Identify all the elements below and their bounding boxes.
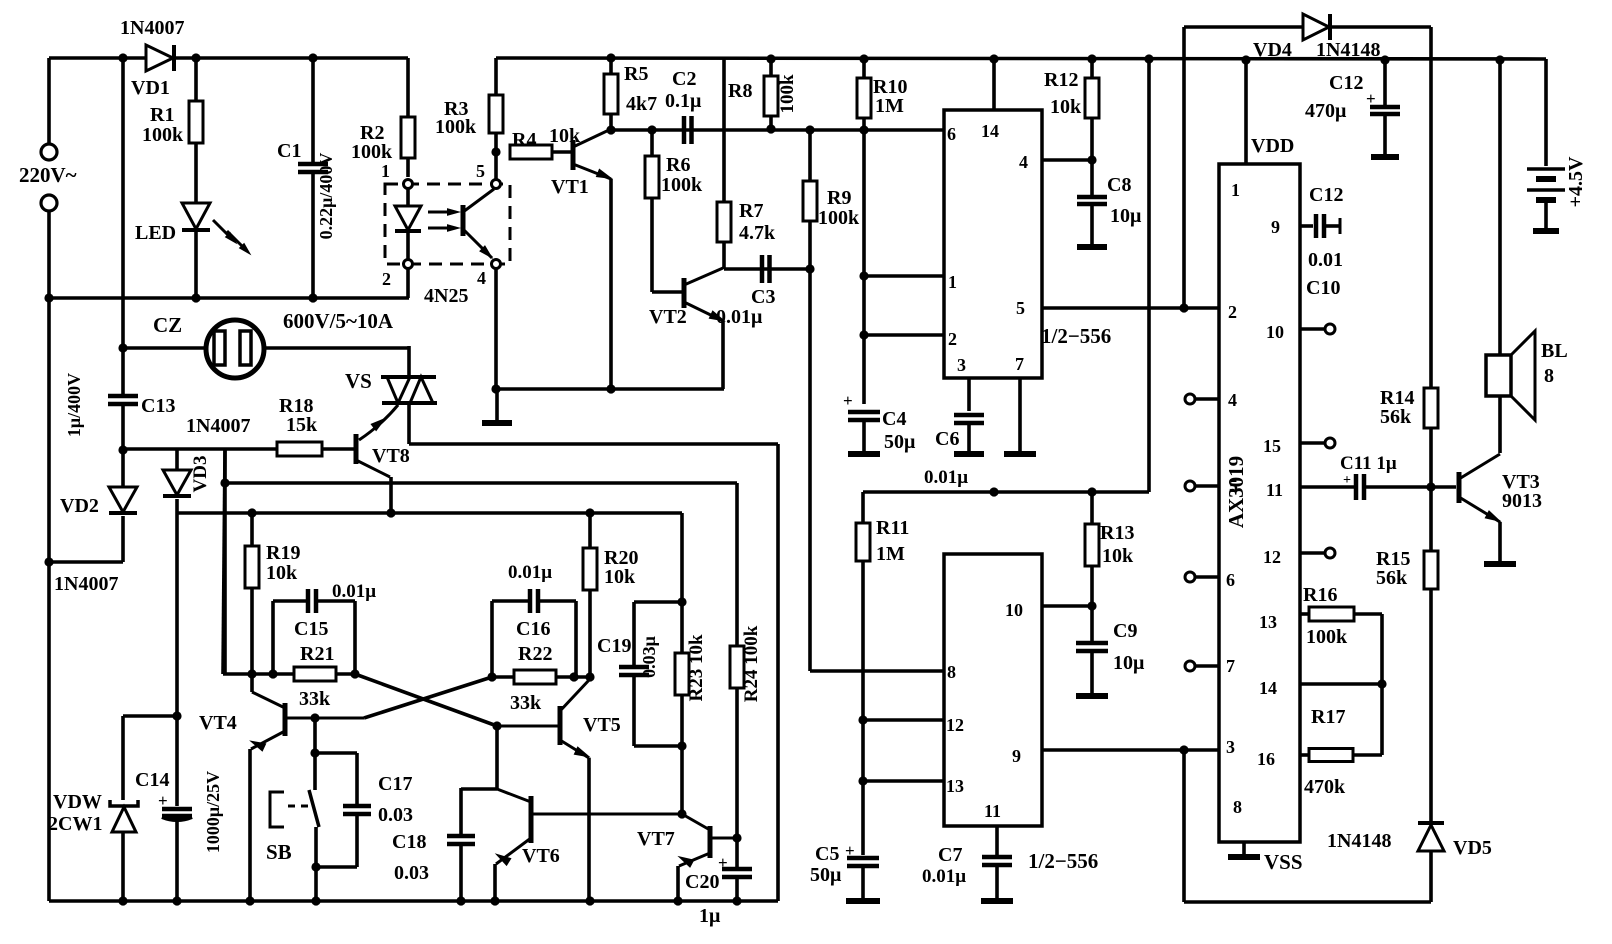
battery BT +4.5V [1527, 167, 1565, 171]
svg-text:C20: C20 [685, 871, 719, 893]
svg-text:2: 2 [382, 269, 391, 289]
capacitor C9 10u [1090, 606, 1094, 641]
junction pin4 / C8 node [1087, 155, 1096, 164]
wire left vertical main (lower terminal down left edge to bottom rail) [47, 211, 51, 901]
svg-text:R4: R4 [512, 129, 536, 151]
socket CZ symbol [206, 320, 264, 378]
junction pin14 on rail [989, 54, 998, 63]
svg-text:+4.5V: +4.5V [1565, 156, 1587, 207]
pin 7 open terminal [1196, 664, 1219, 668]
node 220V input terminals [41, 144, 57, 160]
junction R5 top on rail [606, 53, 615, 62]
capacitor C15 0.01u loop [271, 601, 275, 674]
svg-text:1: 1 [381, 161, 390, 181]
diode VD4 1N4148 [1303, 14, 1329, 40]
junction VT1 collector node [606, 125, 615, 134]
wire top rail right y58-60 [496, 58, 1546, 59]
wire y444 (VS to lower right block) [409, 442, 778, 446]
resistor R17 470k [1300, 753, 1309, 757]
resistor R7 4.7k [722, 59, 726, 202]
svg-text:14: 14 [981, 121, 999, 141]
pin 10 open terminal [1300, 327, 1324, 331]
svg-text:5: 5 [476, 161, 485, 181]
junction VT5 base node [492, 721, 501, 730]
svg-text:8: 8 [947, 662, 956, 682]
wire R23 bottom to VT7 collector node [680, 746, 684, 814]
svg-text:VT2: VT2 [649, 306, 687, 328]
diode VD2 1N4007 [121, 450, 125, 488]
junction VT4 base / SB branch [310, 713, 319, 722]
junction top rail at x196 [191, 53, 200, 62]
wire R18 to VT8 base [322, 447, 354, 451]
junction bottom rail nodes [118, 896, 127, 905]
svg-text:4k7: 4k7 [626, 93, 657, 115]
wire speaker feed [1498, 60, 1502, 355]
junction R8 top on rail [766, 54, 775, 63]
junction R10 bottom on node line [859, 125, 868, 134]
svg-text:0.01μ: 0.01μ [508, 562, 552, 583]
wire x864 down to pins 1,2 and C4 [862, 130, 866, 404]
junction SB bottom [311, 862, 320, 871]
svg-text:10: 10 [1005, 600, 1023, 620]
wire pin2 stub [864, 333, 944, 337]
svg-text:C7: C7 [938, 844, 962, 866]
svg-text:VS: VS [345, 369, 372, 393]
svg-text:9: 9 [1012, 746, 1021, 766]
svg-text:VT6: VT6 [522, 845, 560, 867]
pin 5 of 4N25 [492, 180, 501, 189]
svg-text:100k: 100k [1306, 626, 1348, 648]
svg-text:6: 6 [1226, 570, 1235, 590]
wire y674 R21 node [223, 449, 225, 674]
junction C16 right leg [569, 672, 578, 681]
svg-text:R12: R12 [1044, 69, 1078, 91]
svg-text:C1: C1 [277, 140, 301, 162]
svg-text:R9: R9 [827, 187, 851, 209]
IC U3 1/2-556 lower box [944, 554, 1042, 826]
junction VT7 collector node [677, 809, 686, 818]
ground of pin 7 [1018, 378, 1022, 452]
junction pin2 node [859, 330, 868, 339]
svg-text:C4: C4 [882, 408, 906, 430]
junction bottom AC rail [44, 293, 53, 302]
resistor R10 1M [862, 59, 866, 78]
junction VDD wire on rail [1241, 55, 1250, 64]
wire 4N25 pin2 to bottom rail [406, 268, 410, 298]
svg-text:C5: C5 [815, 843, 839, 865]
junction C19/R23 top [677, 597, 686, 606]
pin 1 of 4N25 [404, 180, 413, 189]
svg-text:1N4007: 1N4007 [120, 17, 184, 39]
pin 12 open terminal [1300, 551, 1324, 555]
svg-text:2: 2 [948, 329, 957, 349]
ground VSS [1242, 842, 1246, 855]
svg-text:3: 3 [1226, 737, 1235, 757]
svg-text:R21: R21 [300, 643, 334, 665]
ground VT3 emitter [1484, 561, 1516, 567]
svg-text:4: 4 [1019, 152, 1028, 172]
svg-text:+: + [1343, 473, 1351, 488]
svg-text:100k: 100k [661, 174, 703, 196]
capacitor C14 1000u/25V electrolytic [175, 716, 179, 806]
svg-text:VD1: VD1 [131, 77, 170, 99]
svg-text:0.01μ: 0.01μ [332, 581, 376, 602]
wire top-left rail y58 [49, 56, 146, 60]
resistor R2 100k [406, 58, 410, 117]
wire pin9 to AX3019 pin3 [1042, 748, 1219, 752]
junction x1149 on rail [1144, 54, 1153, 63]
wire R4 to VT1 base [552, 150, 572, 154]
svg-text:5: 5 [1229, 476, 1238, 496]
svg-text:0.01μ: 0.01μ [924, 467, 968, 488]
switch SB [270, 792, 284, 827]
wire CZ socket to VS [264, 346, 409, 350]
svg-text:C17: C17 [378, 773, 412, 795]
svg-text:C8: C8 [1107, 174, 1131, 196]
svg-text:9: 9 [1271, 217, 1280, 237]
svg-text:C2: C2 [672, 68, 696, 90]
junction R9 top on node line [805, 125, 814, 134]
junction C13 bottom node [118, 445, 127, 454]
transistor VT7 [708, 826, 713, 858]
capacitor C18 0.03 [459, 788, 463, 834]
svg-text:0.01μ: 0.01μ [716, 306, 763, 328]
svg-text:10k: 10k [604, 566, 636, 588]
wire node line y130 [611, 128, 944, 132]
resistor R18 15k [277, 442, 322, 456]
svg-text:C3: C3 [751, 286, 775, 308]
svg-text:8: 8 [1233, 797, 1242, 817]
junction R20 top [585, 508, 594, 517]
svg-text:3: 3 [957, 355, 966, 375]
transistor VT1 [571, 140, 576, 170]
svg-text:0.22μ/400V: 0.22μ/400V [316, 153, 336, 240]
svg-text:1N4148: 1N4148 [1327, 830, 1391, 852]
capacitor C7 0.01u under pin11 [995, 826, 999, 855]
svg-text:100k: 100k [142, 124, 184, 146]
wire cross diagonal R21 to VT5 base [355, 674, 497, 726]
junction 4N25 pin4 on rail [491, 384, 500, 393]
LED inside 4N25 [406, 189, 410, 206]
svg-text:C9: C9 [1113, 620, 1137, 642]
svg-text:470μ: 470μ [1305, 100, 1347, 122]
svg-text:0.03μ: 0.03μ [639, 636, 659, 678]
junction VT1 emitter on rail [606, 384, 615, 393]
svg-text:VD4: VD4 [1253, 39, 1292, 61]
emitter ground rail y389 [495, 387, 724, 391]
svg-text:56k: 56k [1376, 567, 1408, 589]
junction C3 right / R9 [805, 264, 814, 273]
wire y484 long horizontal to R24 [225, 481, 737, 485]
resistor R20 10k [588, 513, 592, 548]
switch SB branch [313, 718, 317, 790]
wire x1431 column [1429, 27, 1433, 388]
junction R12 top on rail [1087, 54, 1096, 63]
junction C16 left / diagonal [487, 672, 496, 681]
resistor R4 10k [510, 145, 552, 159]
pin 4 open terminal [1196, 397, 1219, 401]
capacitor C6 0.01u under pin3 [967, 378, 971, 411]
transistor VT2 [682, 278, 687, 308]
svg-text:2CW1: 2CW1 [48, 813, 102, 835]
svg-text:R22: R22 [518, 643, 552, 665]
svg-text:1/2−556: 1/2−556 [1041, 324, 1111, 348]
resistor R13 10k [1090, 492, 1094, 524]
svg-text:600V/5~10A: 600V/5~10A [283, 309, 394, 333]
svg-text:R6: R6 [666, 154, 690, 176]
svg-text:VD5: VD5 [1453, 837, 1492, 859]
svg-text:VT7: VT7 [637, 828, 675, 850]
pin 4 of 4N25 [492, 260, 501, 269]
resistor R19 10k [250, 513, 254, 546]
resistor R11 1M [861, 492, 865, 523]
wire VD2 bottom to left rail [49, 560, 123, 564]
junction pin14 node [1377, 679, 1386, 688]
wire x123 vertical (rail to CZ node) [121, 58, 125, 394]
svg-text:C12: C12 [1329, 72, 1363, 94]
svg-text:1: 1 [1231, 180, 1240, 200]
svg-text:0.03: 0.03 [394, 862, 429, 884]
svg-text:10k: 10k [1102, 545, 1134, 567]
resistor R14 56k [1424, 388, 1438, 428]
wire VT5 base node down to C18/VT6 collector [495, 726, 499, 789]
capacitor C13 1u/400V [108, 394, 138, 399]
junction x123 y348 [118, 343, 127, 352]
light arrows inside 4N25 [428, 211, 456, 214]
svg-text:100k: 100k [777, 74, 798, 114]
svg-text:1μ/400V: 1μ/400V [64, 373, 84, 437]
wire bottom right rail [1184, 900, 1431, 904]
svg-text:11: 11 [984, 801, 1001, 821]
svg-text:VDW: VDW [53, 791, 102, 813]
triac VS [381, 375, 436, 379]
wire battery feed [1544, 59, 1548, 166]
svg-text:C11 1μ: C11 1μ [1340, 453, 1397, 474]
pin 9 capacitor C12 0.01 C10 [1300, 224, 1313, 228]
svg-text:10k: 10k [266, 562, 298, 584]
junction speaker feed on rail [1495, 55, 1504, 64]
wire pin1 stub [864, 274, 944, 278]
capacitor C1 0.22u/400V [311, 58, 315, 164]
wire R3 bottom to 4N25 pin5 [494, 152, 498, 180]
resistor R8 100k [769, 59, 773, 76]
optocoupler U1 4N25 dashed box [385, 184, 510, 264]
wire pin5 to AX3019 pin2 [1042, 306, 1219, 310]
wire y449 node jog to y484 [223, 449, 227, 674]
capacitor C3 0.01u [760, 255, 765, 283]
pin 6 open terminal [1196, 575, 1219, 579]
wire CZ to socket [123, 346, 206, 350]
wire C17 branch top [315, 751, 357, 755]
junction pin12 node [858, 715, 867, 724]
transistor VT3 9013 [1457, 472, 1462, 503]
svg-text:C14: C14 [135, 769, 169, 791]
svg-text:VT5: VT5 [583, 714, 621, 736]
junction VT8 emitter on supply wire [386, 508, 395, 517]
speaker BL 8ohm [1486, 355, 1511, 396]
capacitor C17 0.03 [355, 753, 359, 804]
wire left vertical top (terminal to top rail) [47, 58, 51, 144]
junction top rail at x313 [308, 53, 317, 62]
svg-text:R17: R17 [1311, 706, 1345, 728]
pin 2 of 4N25 [404, 260, 413, 269]
svg-text:12: 12 [946, 715, 964, 735]
svg-text:1N4007: 1N4007 [54, 573, 118, 595]
svg-text:13: 13 [1259, 612, 1277, 632]
resistor R15 56k [1424, 551, 1438, 589]
LED indicator [182, 203, 210, 229]
wire supply y513 [177, 511, 682, 515]
junction R8 bottom on node line [766, 124, 775, 133]
svg-text:0.03: 0.03 [378, 804, 413, 826]
svg-text:0.01μ: 0.01μ [922, 866, 966, 887]
resistor R6 100k [650, 130, 654, 156]
pin 5 open terminal [1196, 484, 1219, 488]
svg-text:R5: R5 [624, 63, 648, 85]
wire pin13 stub [863, 779, 944, 783]
capacitor C16 0.01u loop [490, 601, 494, 677]
wire VD4 bypass top y27 [1184, 25, 1302, 29]
junction pin10 / C9 node [1087, 601, 1096, 610]
wire y513 corner down to C19/R23 [680, 513, 684, 602]
wire VDD to AX3019 pin1 [1244, 60, 1248, 164]
svg-text:C12: C12 [1309, 184, 1343, 206]
junction C14 branch [172, 711, 181, 720]
phototransistor inside 4N25 [461, 205, 466, 236]
wire bottom rail left [49, 899, 778, 903]
svg-text:10k: 10k [549, 125, 581, 147]
wire rail to y492 at x1149 [1147, 59, 1151, 492]
svg-text:100k: 100k [351, 141, 393, 163]
ground symbol of emitter rail [495, 389, 499, 421]
wire cross diagonal VT4 base to C16 left [364, 677, 492, 718]
svg-text:1000μ/25V: 1000μ/25V [203, 771, 223, 853]
svg-text:+: + [843, 391, 853, 410]
wire pin10 stub [1042, 604, 1092, 608]
wire bottom AC rail y298 [49, 296, 409, 300]
svg-text:C18: C18 [392, 831, 426, 853]
resistor R9 100k [808, 130, 812, 181]
svg-text:5: 5 [1016, 298, 1025, 318]
junction pin13 node [858, 776, 867, 785]
wire VDW branch [123, 714, 177, 718]
svg-text:1N4007: 1N4007 [186, 415, 250, 437]
transistor VT8 [354, 434, 359, 464]
svg-text:LED: LED [135, 222, 176, 244]
svg-text:11: 11 [1266, 480, 1283, 500]
svg-text:CZ: CZ [153, 313, 182, 337]
wire 4N25 pin4 to ground rail [494, 268, 498, 389]
junction R19 top [247, 508, 256, 517]
resistor R12 10k [1090, 59, 1094, 78]
svg-text:6: 6 [947, 124, 956, 144]
wire C17 branch bottom [316, 865, 357, 869]
svg-text:C10: C10 [1306, 277, 1340, 299]
svg-text:4: 4 [477, 268, 486, 288]
svg-text:1: 1 [948, 272, 957, 292]
svg-text:12: 12 [1263, 547, 1281, 567]
capacitor C8 10u [1090, 160, 1094, 196]
svg-text:100k: 100k [435, 116, 477, 138]
svg-text:4.7k: 4.7k [739, 222, 776, 244]
resistor R23 10k [680, 602, 684, 653]
junction R10 top [859, 54, 868, 63]
wire pin12 stub [863, 718, 944, 722]
svg-text:50μ: 50μ [884, 431, 916, 453]
svg-text:470k: 470k [1304, 776, 1346, 798]
svg-text:1M: 1M [875, 95, 904, 117]
wire R16/R17 to pin14 [1380, 614, 1384, 755]
svg-text:C15: C15 [294, 618, 328, 640]
wire node y449 to R18 [123, 447, 277, 451]
svg-text:0.01: 0.01 [1308, 249, 1343, 271]
diode VD1 1N4007 on top rail [146, 45, 173, 71]
svg-text:VD3: VD3 [190, 456, 211, 493]
junction C19/R23 bottom [677, 741, 686, 750]
svg-text:8: 8 [1544, 365, 1554, 387]
svg-text:C13: C13 [141, 395, 175, 417]
junction y484 tee [220, 478, 229, 487]
svg-text:1N4148: 1N4148 [1316, 39, 1380, 61]
junction on y492 bus [989, 487, 998, 496]
transistor VT5 [558, 706, 563, 745]
svg-text:R13: R13 [1100, 522, 1134, 544]
svg-text:16: 16 [1257, 749, 1275, 769]
capacitor C12 470u electrolytic [1380, 55, 1389, 64]
svg-text:VSS: VSS [1264, 850, 1303, 874]
svg-text:2: 2 [1228, 302, 1237, 322]
svg-text:100k: 100k [818, 207, 860, 229]
svg-text:9013: 9013 [1502, 490, 1542, 512]
svg-text:R19: R19 [266, 542, 300, 564]
pin 15 open terminal [1300, 441, 1324, 445]
svg-text:15: 15 [1263, 436, 1281, 456]
resistor R1 100k [194, 58, 198, 101]
svg-text:10μ: 10μ [1110, 205, 1142, 227]
svg-text:4: 4 [1228, 390, 1237, 410]
transistor VT4 [283, 703, 288, 736]
svg-text:1/2−556: 1/2−556 [1028, 849, 1098, 873]
svg-text:VT1: VT1 [551, 176, 589, 198]
junction R21 right / diagonal [350, 669, 359, 678]
junction C11 node on R14/R15 line [1426, 482, 1435, 491]
svg-text:R16: R16 [1303, 584, 1337, 606]
diode VD3 1N4007 [175, 449, 179, 471]
IC U4 AX3019 box [1219, 164, 1300, 842]
svg-text:R11: R11 [876, 517, 909, 539]
svg-text:R24 100k: R24 100k [741, 625, 762, 702]
IC U2 1/2-556 box [944, 110, 1042, 378]
svg-text:C6: C6 [935, 428, 959, 450]
resistor R3 100k [494, 58, 498, 95]
transistor VT6 [529, 796, 534, 843]
junction left rail y562 [44, 557, 53, 566]
svg-text:VDD: VDD [1251, 135, 1294, 157]
svg-text:7: 7 [1226, 656, 1235, 676]
wire x808 down to timer pin 8 [808, 269, 812, 671]
diode VD5 1N4148 [1418, 821, 1444, 825]
svg-text:R23 10k: R23 10k [686, 634, 707, 701]
resistor R16 100k [1300, 612, 1309, 616]
svg-text:4N25: 4N25 [424, 285, 468, 307]
wire speaker to VT3 collector [1498, 396, 1502, 453]
svg-text:SB: SB [266, 840, 292, 864]
zener VDW 2CW1 [110, 800, 138, 806]
wire pin14 to rail [992, 59, 996, 110]
svg-text:BL: BL [1541, 340, 1568, 362]
svg-text:10μ: 10μ [1113, 652, 1145, 674]
svg-text:C19: C19 [597, 635, 631, 657]
